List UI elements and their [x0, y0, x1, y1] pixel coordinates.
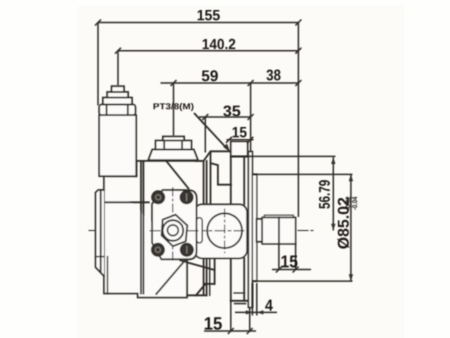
- label dia85.02: [337, 198, 349, 249]
- bolt B2: [180, 191, 193, 204]
- dim 85.02: [253, 173, 353, 175]
- label tol -0.04: [352, 197, 357, 210]
- big circle: [207, 213, 242, 248]
- dim 15 bottom: [230, 301, 232, 331]
- dim 56.79: [231, 155, 336, 157]
- centerline vertical of plate: [172, 188, 174, 261]
- shaft key: [264, 215, 293, 217]
- label 56.79: [319, 180, 330, 208]
- label 155: [198, 10, 220, 20]
- dim 4: [251, 283, 253, 316]
- valve block plate with 4 bolts: [150, 188, 202, 261]
- left end plate: [96, 190, 108, 294]
- label 59: [202, 70, 218, 81]
- shaft shoulder: [257, 219, 263, 242]
- flange plate: [248, 152, 252, 308]
- dim 35: [199, 116, 251, 118]
- label 4: [265, 300, 273, 311]
- circle crosshair vertical: [224, 209, 226, 253]
- bottom right small lines: [187, 294, 207, 296]
- top port boss PT3/8: [231, 141, 248, 156]
- shaft step line: [278, 218, 280, 244]
- wire: horizontal centerline: [89, 230, 313, 232]
- flange spigot: [252, 174, 256, 281]
- bottom boss: [231, 300, 249, 302]
- tab right of plate: [197, 218, 203, 243]
- label 140.2: [203, 39, 236, 49]
- bolt B3: [152, 243, 165, 256]
- label 38: [267, 70, 281, 81]
- label 15b: [205, 317, 222, 330]
- label 15r: [281, 255, 297, 267]
- housing top internal diagonal: [167, 161, 189, 188]
- dim 59 / 38: [161, 82, 299, 84]
- rear housing upper block: [196, 151, 232, 204]
- chamfer diagonal lower: [156, 258, 187, 294]
- dim 15 right of shaft: [278, 244, 280, 270]
- dim 15 top: [227, 139, 254, 141]
- label 35: [223, 106, 240, 117]
- shaft: [262, 218, 295, 244]
- bearing carrier plate with circle: [194, 204, 247, 258]
- dim 140.2: [118, 50, 298, 52]
- dim 155: [98, 22, 298, 24]
- bolt B1: [152, 191, 165, 204]
- relief valve V1 body: [99, 86, 136, 176]
- rear housing verticals: [207, 156, 246, 303]
- label 15t: [233, 127, 247, 138]
- label PT: [154, 103, 194, 111]
- bolt B4: [180, 243, 193, 256]
- label tol -0.02: [346, 197, 351, 210]
- port fitting pagoda on top: [148, 137, 198, 161]
- gear housing main block: [104, 161, 215, 298]
- hex plug: [156, 212, 192, 248]
- leader PT3/8: [194, 113, 229, 151]
